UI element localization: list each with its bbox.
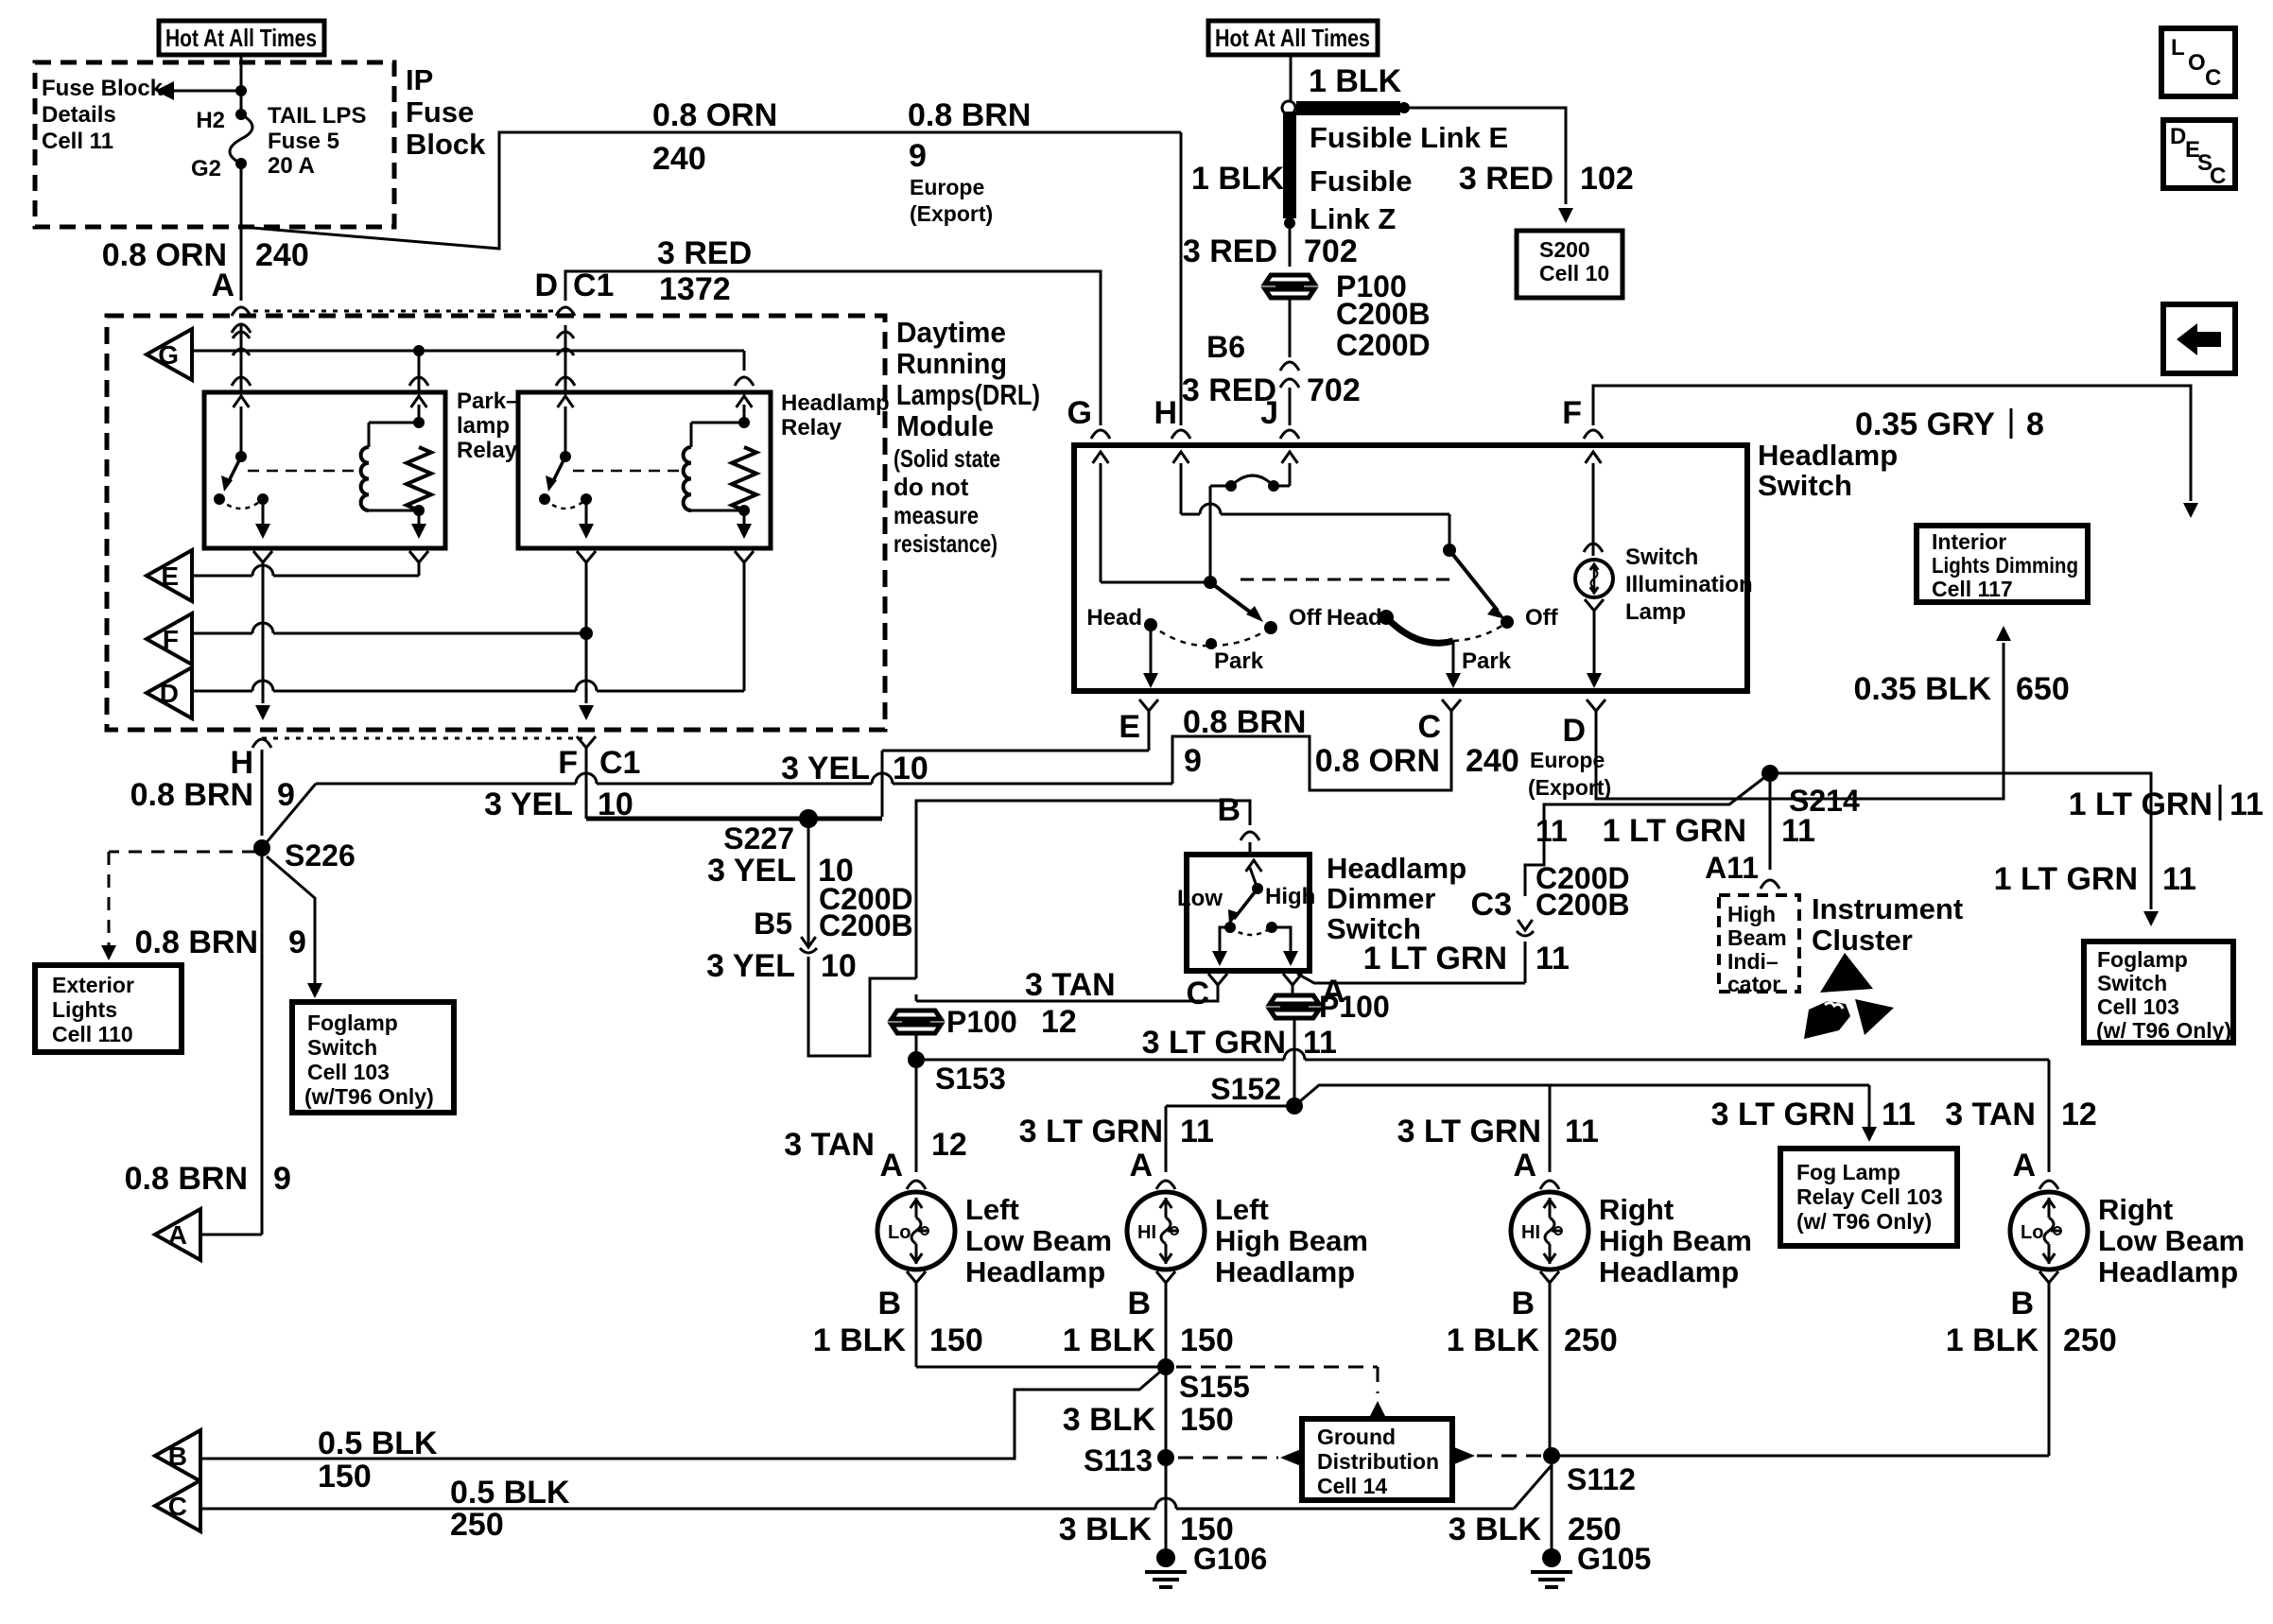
A wire into module [232, 325, 251, 392]
svg-text:Relay: Relay [457, 438, 518, 463]
connector C1 dotted (bottom) [262, 737, 582, 740]
svg-text:C: C [1417, 709, 1441, 745]
connector G (switch) [1067, 395, 1110, 439]
label 1 LT GRN 11 (A11) [1603, 813, 1815, 849]
switch pin G internal [1093, 452, 1109, 582]
label 3 RED 1372 [657, 235, 752, 307]
svg-text:3 BLK: 3 BLK [1449, 1512, 1542, 1547]
svg-text:11: 11 [1536, 941, 1570, 976]
svg-text:Low: Low [1177, 886, 1223, 911]
fusible link Z (thick bar) [1283, 112, 1296, 229]
svg-text:C: C [168, 1492, 187, 1521]
svg-text:240: 240 [652, 141, 706, 177]
svg-text:cator: cator [1727, 972, 1780, 996]
svg-text:Cell 110: Cell 110 [52, 1022, 133, 1046]
splice S155 [1157, 1358, 1250, 1404]
label 3 TAN 12 (run) [1025, 967, 1116, 1040]
wire 3 RED 702 to J [1289, 388, 1292, 425]
connector B Right High Beam headlamp [1511, 1271, 1559, 1322]
wire left high B down [1165, 1292, 1168, 1367]
label: Daytime Running Lamps(DRL) Module [894, 316, 1040, 558]
svg-text:0.8 BRN: 0.8 BRN [908, 97, 1031, 133]
label: Instrument Cluster [1812, 892, 1963, 957]
svg-text:S113: S113 [1084, 1443, 1153, 1477]
wire from Hot box down to H2 [240, 55, 243, 114]
label: Fusible Link E [1310, 121, 1508, 154]
svg-text:150: 150 [1180, 1402, 1234, 1438]
svg-text:(Export): (Export) [1528, 775, 1611, 800]
svg-text:Lo: Lo [2021, 1222, 2043, 1243]
wire S153 down to left low beam [915, 1068, 918, 1172]
svg-text:O: O [2188, 50, 2206, 76]
D/C1 wire into headlamp relay [556, 325, 575, 392]
connector C below switch [1417, 700, 1461, 745]
triangle connector C out [155, 1480, 200, 1531]
dashed ground dist to S112 [1454, 1447, 1541, 1464]
svg-text:C: C [2210, 164, 2226, 189]
splice S153 [908, 1051, 1006, 1096]
wire dimmer A to P100 [1292, 989, 1294, 994]
wire to A out triangle [200, 1234, 262, 1236]
connector P100 (right) [1270, 990, 1390, 1024]
IP fuse block dashed box [35, 62, 394, 227]
node: junction dot at arrow branch [235, 85, 247, 96]
svg-text:Foglamp: Foglamp [2097, 947, 2188, 972]
connector A Left High Beam headlamp [1129, 1148, 1175, 1189]
connector F (switch top) [1562, 395, 1603, 439]
long wire S153 to right low beam [916, 1049, 2049, 1172]
svg-text:Indi–: Indi– [1727, 949, 1778, 974]
wire right high B down to S112 [1549, 1292, 1552, 1448]
svg-text:(Export): (Export) [910, 201, 993, 226]
svg-text:0.35 BLK: 0.35 BLK [1854, 671, 1992, 707]
label 3 LT GRN 11 (right high) [1397, 1114, 1599, 1149]
label 0.5 BLK 150 [318, 1425, 438, 1494]
connector A Right Low Beam headlamp [2012, 1148, 2058, 1189]
labels Head Off Park (left) [1086, 605, 1322, 674]
svg-text:3 BLK: 3 BLK [1063, 1402, 1156, 1438]
svg-text:3 TAN: 3 TAN [784, 1127, 875, 1163]
svg-text:H: H [1154, 395, 1177, 431]
svg-text:9: 9 [909, 138, 927, 174]
wire S227 riser to E path [882, 717, 1149, 817]
wire D/C1 to G (3 RED 1372) [565, 271, 1101, 425]
svg-text:A: A [1129, 1148, 1153, 1183]
box: Interior Lights Dimming Cell 117 [1917, 526, 2088, 602]
svg-text:3 YEL: 3 YEL [484, 786, 573, 822]
park relay coil pin entry [409, 351, 428, 392]
node H2 [196, 108, 247, 133]
wire 3 YEL bold run [586, 817, 882, 821]
triangle connector D (DRL) [147, 667, 192, 718]
svg-text:Beam: Beam [1727, 925, 1787, 950]
svg-text:Hot At All Times: Hot At All Times [165, 24, 317, 52]
svg-text:Distribution: Distribution [1317, 1449, 1439, 1474]
svg-text:B: B [2010, 1286, 2034, 1322]
svg-text:Cell 103: Cell 103 [307, 1060, 390, 1084]
svg-text:P100: P100 [1319, 990, 1390, 1024]
connector H below module [230, 739, 271, 836]
svg-text:High Beam: High Beam [1215, 1224, 1368, 1257]
svg-text:Head: Head [1086, 605, 1142, 631]
back arrow box [2163, 304, 2235, 373]
svg-text:A11: A11 [1705, 851, 1759, 885]
headlamp relay input pin [558, 396, 574, 457]
svg-text:702: 702 [1307, 372, 1361, 408]
park relay coil bus bottom [369, 505, 426, 539]
svg-text:9: 9 [1184, 743, 1202, 779]
diag from dimmer A to C3 route [1297, 974, 1525, 983]
wire 3 YEL to dimmer B [808, 957, 916, 1056]
arrow to Fuse Block Details [155, 81, 241, 100]
dimmer pivot and arm [1228, 860, 1263, 924]
svg-text:250: 250 [2063, 1322, 2117, 1358]
label 0.8 BRN 9 Europe (Export) [908, 97, 1031, 226]
wire 1 BLK down to H [1180, 132, 1183, 425]
svg-text:Lo: Lo [888, 1222, 911, 1243]
svg-text:D: D [534, 268, 558, 303]
splice S214 [1761, 765, 1860, 818]
svg-text:Fog Lamp: Fog Lamp [1796, 1160, 1900, 1184]
label: Headlamp Dimmer Switch [1327, 852, 1466, 945]
svg-text:G105: G105 [1577, 1542, 1651, 1576]
svg-text:20 A: 20 A [268, 153, 315, 179]
connector A Right High Beam headlamp [1513, 1148, 1559, 1189]
svg-text:3 LT GRN: 3 LT GRN [1397, 1114, 1541, 1149]
svg-text:P100: P100 [946, 1005, 1017, 1039]
svg-text:250: 250 [1564, 1322, 1618, 1358]
label 0.8 ORN 240 (top run) [652, 97, 777, 177]
svg-text:150: 150 [929, 1322, 983, 1358]
lamp: Right Low Beam Headlamp [2010, 1192, 2245, 1288]
svg-text:Left: Left [965, 1193, 1019, 1226]
label: Headlamp Switch [1758, 439, 1898, 502]
S155 branch to B triangle [200, 1367, 1166, 1459]
park relay resistor [407, 447, 431, 510]
svg-text:Headlamp: Headlamp [2098, 1255, 2238, 1288]
wire 3 RED 702 (upper) [1289, 229, 1292, 267]
svg-text:B: B [168, 1442, 187, 1471]
svg-text:1 LT GRN: 1 LT GRN [1363, 941, 1507, 976]
wire P100 to S153 [915, 1033, 918, 1053]
connector A Left Low Beam headlamp [879, 1148, 926, 1189]
headlamp relay resistor [732, 447, 756, 510]
svg-text:C200B: C200B [819, 908, 913, 942]
label 0.35 BLK 650 [1854, 671, 2070, 707]
label 1 BLK 250 (right low) [1946, 1322, 2117, 1358]
svg-text:11: 11 [1180, 1114, 1214, 1149]
svg-text:150: 150 [1180, 1322, 1234, 1358]
svg-text:11: 11 [1565, 1114, 1599, 1149]
splice S113 [1084, 1443, 1174, 1477]
svg-text:Left: Left [1215, 1193, 1269, 1226]
splice S152 [1210, 1072, 1303, 1114]
right switch pivot [1443, 544, 1456, 557]
wire C3 up to S214 [1525, 773, 1770, 983]
svg-text:Block: Block [406, 128, 486, 161]
switch pin F internal [1584, 452, 1603, 556]
ESD symbol [1804, 953, 1894, 1039]
svg-text:Ground: Ground [1317, 1425, 1396, 1449]
svg-text:Exterior: Exterior [52, 973, 134, 997]
wire P100 to S152 [1293, 1018, 1296, 1106]
svg-text:Link Z: Link Z [1310, 202, 1396, 235]
label 3 TAN 12 (right low) [1945, 1097, 2097, 1132]
box: Fog Lamp Relay Cell 103 [1780, 1149, 1957, 1246]
wire D to interior dimming riser [1596, 626, 2011, 799]
label 0.8 BRN 9 (foglamp) [135, 924, 306, 960]
svg-text:0.8 BRN: 0.8 BRN [125, 1161, 248, 1197]
headlamp dimmer switch box [1187, 855, 1310, 971]
svg-text:702: 702 [1304, 233, 1358, 269]
label 3 YEL 10 (F wire) [484, 786, 633, 822]
svg-text:Right: Right [2098, 1193, 2173, 1226]
svg-text:Lights: Lights [52, 997, 117, 1022]
right switch contacts [1379, 610, 1514, 643]
svg-text:Low Beam: Low Beam [965, 1224, 1112, 1257]
wire to B6 [1289, 298, 1292, 357]
svg-text:0.8 ORN: 0.8 ORN [1315, 743, 1440, 779]
svg-text:0.8 BRN: 0.8 BRN [1183, 704, 1306, 740]
headlamp relay contacts [539, 493, 592, 509]
wire S152 to left high beam [1166, 1106, 1294, 1172]
svg-text:B: B [1217, 792, 1241, 828]
lamp lower connector [1585, 599, 1604, 688]
wire S112 to right low B [1552, 1292, 2049, 1456]
wire branch from fuse to top run [241, 132, 1181, 249]
label 1 BLK 250 (right high) [1447, 1322, 1618, 1358]
ground G105 [1531, 1542, 1651, 1587]
svg-text:A: A [2012, 1148, 2036, 1183]
lamp: Right High Beam Headlamp [1511, 1192, 1752, 1288]
svg-text:High: High [1727, 902, 1776, 926]
headlamp relay coil bus bottom [691, 505, 752, 539]
box: Foglamp Switch Cell 103 (left) [292, 1002, 454, 1113]
svg-text:High: High [1265, 884, 1315, 909]
connector D below switch [1562, 700, 1605, 749]
D wire (module) [192, 681, 744, 691]
svg-text:A: A [1513, 1148, 1536, 1183]
connector B dimmer [1217, 792, 1259, 855]
C line 0.5 BLK 250 [200, 1465, 1552, 1509]
switch pin H internal [1173, 452, 1449, 550]
svg-text:do not: do not [894, 473, 969, 501]
connector B Right Low Beam headlamp [2010, 1271, 2058, 1322]
svg-text:1372: 1372 [659, 271, 731, 307]
dashed S113 to ground dist [1178, 1449, 1301, 1466]
splice S227 [723, 809, 818, 855]
headlamp relay out connector [577, 551, 596, 633]
exterior lights dashed route [101, 852, 255, 960]
svg-text:C200D: C200D [1336, 328, 1431, 362]
park relay output [255, 499, 270, 539]
svg-text:Low Beam: Low Beam [2098, 1224, 2245, 1257]
label 0.5 BLK 250 [450, 1475, 570, 1543]
dashed to ground distribution [1176, 1367, 1385, 1416]
wire left low B down [915, 1292, 918, 1367]
park relay coil bus top [369, 396, 426, 447]
park-lamp relay box [204, 392, 445, 548]
svg-text:B5: B5 [754, 907, 792, 941]
svg-text:11: 11 [2162, 861, 2196, 897]
svg-text:Fusible: Fusible [1310, 164, 1413, 198]
connector A11 [1761, 880, 1779, 889]
svg-text:1 BLK: 1 BLK [813, 1322, 907, 1358]
wire S214 down to A11 [1769, 782, 1772, 870]
connector C dimmer [1186, 974, 1227, 1011]
label 0.8 BRN (E) [1183, 704, 1306, 740]
svg-text:(Solid state: (Solid state [894, 444, 1000, 473]
park relay contacts [214, 493, 269, 509]
connector P100 (top) [1265, 269, 1407, 303]
lamp: Left Low Beam Headlamp [877, 1192, 1112, 1288]
wire S226 to foglamp switch [267, 856, 322, 998]
park relay coil [361, 447, 369, 510]
labels Head Off Park (right) [1327, 605, 1559, 674]
svg-text:lamp: lamp [457, 413, 510, 439]
svg-text:1 BLK: 1 BLK [1063, 1322, 1156, 1358]
svg-text:10: 10 [893, 751, 928, 786]
box: Ground Distribution Cell 14 [1302, 1419, 1452, 1500]
svg-text:Cell 117: Cell 117 [1932, 577, 2013, 601]
svg-text:0.8 BRN: 0.8 BRN [135, 924, 258, 960]
svg-text:1 BLK: 1 BLK [1309, 63, 1402, 99]
svg-text:3 YEL: 3 YEL [706, 948, 795, 984]
wire S155 to S113 [1165, 1375, 1168, 1451]
connector C1 dotted line (top) [253, 310, 558, 313]
label 3 YEL 10 (to B) [706, 948, 857, 984]
label 0.35 GRY 8 [1855, 406, 2044, 442]
connector A into DRL module [211, 268, 251, 333]
headlamp relay output [579, 499, 594, 539]
svg-text:B: B [1127, 1286, 1151, 1322]
svg-text:Relay Cell 103: Relay Cell 103 [1796, 1184, 1943, 1209]
svg-text:Headlamp: Headlamp [1758, 439, 1898, 472]
label: Fuse Block Details Cell 11 [42, 76, 164, 154]
headlamp coil bottom connector [735, 551, 754, 691]
svg-text:3 RED: 3 RED [657, 235, 752, 271]
svg-text:Cluster: Cluster [1812, 924, 1913, 957]
svg-text:Headlamp: Headlamp [1327, 852, 1466, 885]
label: Fusible Link Z [1310, 164, 1413, 235]
label 1 BLK (fusible link E) [1309, 63, 1402, 99]
svg-text:0.8 ORN: 0.8 ORN [652, 97, 777, 133]
right park output wire [1446, 641, 1461, 688]
svg-text:Cell 103: Cell 103 [2097, 994, 2179, 1019]
left switch contacts Head/Park/Off [1144, 618, 1277, 649]
svg-text:3 LT GRN: 3 LT GRN [1711, 1097, 1855, 1132]
triangle connector E (DRL) [147, 550, 192, 601]
svg-text:resistance): resistance) [894, 529, 998, 558]
svg-text:S155: S155 [1179, 1370, 1250, 1404]
label 1 BLK 150 (left low) [813, 1322, 983, 1358]
svg-text:150: 150 [318, 1459, 372, 1494]
wire G internal to pivot [1101, 581, 1210, 584]
svg-text:Fuse: Fuse [406, 95, 474, 129]
svg-text:Switch: Switch [1625, 544, 1698, 570]
wire 0.8 ORN 240 down to A [240, 164, 243, 301]
svg-text:9: 9 [288, 924, 306, 960]
left switch arm [1210, 582, 1263, 622]
svg-text:A: A [879, 1148, 903, 1183]
svg-text:Cell 10: Cell 10 [1539, 261, 1609, 285]
svg-text:12: 12 [931, 1127, 967, 1163]
svg-text:Lamps(DRL): Lamps(DRL) [896, 378, 1040, 411]
labels 11 C200D (C3) [1536, 814, 1630, 895]
box: S200 Cell 10 [1517, 231, 1622, 298]
svg-text:HI: HI [1137, 1222, 1156, 1243]
svg-text:650: 650 [2016, 671, 2070, 707]
G wire inside module [192, 350, 744, 353]
svg-text:C200B: C200B [1336, 297, 1431, 331]
connector B5 C200B [754, 907, 913, 953]
box: Foglamp Switch Cell 103 (right) [2084, 942, 2233, 1043]
svg-text:Switch: Switch [307, 1035, 377, 1060]
svg-text:Fuse 5: Fuse 5 [268, 129, 339, 154]
triangle connector A out [155, 1209, 200, 1260]
right switch arm [1449, 550, 1505, 619]
svg-text:0.35 GRY: 0.35 GRY [1855, 406, 1995, 442]
svg-text:Lamp: Lamp [1625, 599, 1686, 625]
switch illumination lamp [1575, 560, 1613, 597]
svg-text:Headlamp: Headlamp [781, 390, 890, 416]
svg-text:9: 9 [277, 777, 295, 813]
svg-text:G: G [1067, 395, 1092, 431]
wire left low to S155 [916, 1366, 1166, 1369]
svg-text:Daytime: Daytime [896, 316, 1006, 349]
svg-text:(w/ T96 Only): (w/ T96 Only) [2096, 1018, 2231, 1043]
label 3 YEL 10 (riser) [781, 751, 928, 786]
connector J (switch) [1260, 395, 1299, 439]
svg-text:S153: S153 [935, 1062, 1006, 1096]
svg-text:A: A [211, 268, 234, 303]
svg-text:3 YEL: 3 YEL [707, 853, 796, 889]
svg-text:F: F [1562, 395, 1582, 431]
park relay output wire to H [253, 551, 272, 720]
svg-text:11: 11 [1303, 1025, 1337, 1061]
wire riser to B [916, 801, 1250, 978]
svg-text:B: B [1511, 1286, 1535, 1322]
E wire (module) [192, 565, 419, 576]
label 3 RED 702 upper [1183, 233, 1358, 269]
headlamp relay box [518, 392, 771, 548]
svg-text:S227: S227 [723, 821, 794, 855]
svg-text:102: 102 [1580, 161, 1634, 197]
svg-text:S200: S200 [1539, 237, 1590, 262]
svg-text:Right: Right [1599, 1193, 1674, 1226]
left head output wire [1143, 628, 1158, 688]
svg-text:Park: Park [1214, 648, 1264, 674]
label 1 BLK 150 (left high) [1063, 1322, 1234, 1358]
svg-text:0.8 BRN: 0.8 BRN [130, 777, 253, 813]
svg-text:H2: H2 [196, 108, 225, 133]
svg-text:H: H [230, 745, 253, 781]
svg-text:Europe: Europe [910, 175, 984, 199]
svg-text:0.5 BLK: 0.5 BLK [450, 1475, 570, 1511]
label 3 LT GRN 11 (fog relay) [1711, 1097, 1916, 1132]
wire S113 to G106 [1165, 1466, 1168, 1550]
svg-text:1 LT GRN: 1 LT GRN [2069, 786, 2212, 822]
dimmer contacts Low High [1177, 884, 1315, 935]
label 3 RED 102 [1459, 161, 1634, 197]
label 3 LT GRN 11 (left high) [1019, 1114, 1214, 1149]
connector F C1 below module [558, 736, 640, 781]
box: Hot At All Times (left) [159, 21, 324, 55]
svg-text:8: 8 [2026, 406, 2044, 442]
svg-text:C: C [1186, 976, 1209, 1011]
svg-text:Off: Off [1525, 605, 1559, 631]
connector B Left Low Beam headlamp [877, 1271, 926, 1322]
